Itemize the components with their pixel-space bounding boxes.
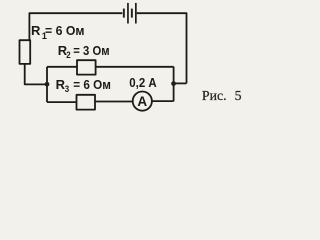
resistor R1 (vertical box) (20, 40, 31, 64)
wire: right connector of parallel branches (173, 67, 175, 102)
wire: R1 top lead riser and top-left horizontal to battery (29, 13, 122, 40)
wire: R3 to ammeter (95, 101, 133, 103)
battery GB (two cells, plates short-tall-short-tall) (123, 3, 137, 24)
wire: bottom branch left segment (47, 101, 77, 103)
wire: jog from right riser to node B (174, 82, 187, 84)
wire: left connector of parallel branches (46, 67, 48, 102)
wire: R1 bottom lead down and right to node A (25, 64, 47, 85)
svg-text:Рис.: Рис. (202, 88, 227, 103)
label R1 value: R1 = 6 Ом (31, 23, 85, 41)
svg-text:0,2 А: 0,2 А (129, 75, 157, 90)
label R2 value: R2 = 3 Ом (58, 43, 110, 60)
node A (left junction dot) (45, 82, 50, 87)
svg-text:= 3 Ом: = 3 Ом (73, 43, 109, 58)
wire: ammeter to right connector (152, 100, 174, 102)
wire: top branch right segment (96, 66, 174, 68)
svg-text:3: 3 (65, 84, 69, 94)
label R3 value: R3 = 6 Ом (56, 77, 111, 94)
wire: battery right terminal to top-right corner and right riser down (137, 13, 187, 83)
svg-text:= 6 Ом: = 6 Ом (45, 23, 85, 38)
svg-text:А: А (137, 94, 147, 109)
svg-text:R: R (31, 23, 41, 38)
wire: top branch left segment (47, 66, 77, 68)
svg-text:2: 2 (66, 50, 70, 60)
caption: Рис. 5 (202, 88, 242, 103)
node B (right junction dot) (171, 81, 176, 86)
resistor R2 (box) (77, 60, 96, 74)
ammeter A (circle) (133, 92, 152, 111)
resistor R3 (box) (77, 95, 96, 110)
svg-text:5: 5 (235, 88, 242, 103)
svg-text:= 6 Ом: = 6 Ом (73, 77, 111, 92)
